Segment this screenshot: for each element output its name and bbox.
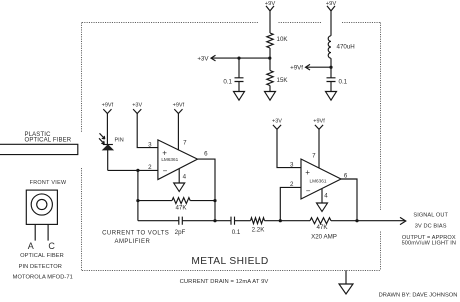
- svg-text:LM6361: LM6361: [310, 179, 327, 184]
- capacitor C 0.1 (supply filter): [327, 78, 348, 86]
- wire U1 output: [198, 159, 216, 221]
- svg-text:470uH: 470uH: [337, 44, 355, 51]
- svg-text:METAL SHIELD: METAL SHIELD: [191, 256, 268, 267]
- svg-text:2: 2: [290, 181, 294, 188]
- node U2 inverting input: [279, 219, 282, 222]
- svg-text:PIN DETECTOR: PIN DETECTOR: [19, 264, 62, 270]
- svg-text:PIN: PIN: [115, 137, 124, 143]
- node bypass cap junction: [237, 57, 240, 60]
- svg-text:+9Vf: +9Vf: [102, 103, 114, 109]
- resistor R 47K (U1 feedback): [172, 198, 190, 212]
- node U1 output / rail: [213, 219, 216, 222]
- svg-text:2pF: 2pF: [175, 229, 186, 236]
- wire 47K feedback row right: [190, 200, 215, 202]
- resistor R 10K: [267, 33, 289, 48]
- wire R 10K to divider node: [269, 48, 271, 71]
- svg-text:0.1: 0.1: [339, 79, 348, 86]
- wire shield to ground: [345, 271, 347, 285]
- node feedback 47K tap: [136, 199, 139, 202]
- svg-text:OPTICAL FIBER: OPTICAL FIBER: [25, 138, 72, 144]
- detector lead A: [34, 224, 36, 240]
- metal shield enclosure left edge (dashed): [81, 23, 83, 271]
- wire +9Vf down to U2 pin 7: [318, 129, 320, 168]
- svg-text:3V DC BIAS: 3V DC BIAS: [415, 223, 447, 229]
- node U1 output / feedback: [213, 199, 216, 202]
- net label +3V (arrow): [197, 55, 215, 62]
- svg-text:OPTICAL FIBER: OPTICAL FIBER: [20, 253, 64, 259]
- capacitor C 0.1 (divider bypass): [223, 78, 243, 86]
- svg-text:+3V: +3V: [132, 103, 142, 109]
- wire +3V down to U2 pin 3: [277, 129, 301, 167]
- svg-text:+9Vf: +9Vf: [313, 119, 325, 125]
- power symbol +3V (U1 pin3): [132, 103, 142, 114]
- svg-text:MOTOROLA MFOD-71: MOTOROLA MFOD-71: [13, 275, 73, 281]
- svg-text:LM6361: LM6361: [161, 157, 178, 162]
- net label +9Vf (arrow): [290, 64, 331, 71]
- power symbol +3V (U2 pin3): [272, 119, 282, 130]
- svg-text:+3V: +3V: [272, 119, 282, 125]
- photodiode D1 PIN (triangle): [103, 145, 113, 150]
- ground (divider bottom): [265, 92, 276, 101]
- node divider junction: [268, 57, 271, 60]
- detector inner circle: [37, 199, 47, 209]
- wire 47K feedback row left: [138, 200, 172, 202]
- detector outer circle: [31, 194, 52, 215]
- wire capacitor to ground: [330, 82, 332, 92]
- wire 2.2K to U2 input node: [265, 220, 311, 222]
- wire U2 pin2 vertical: [280, 187, 301, 220]
- wire U1 pin4 to ground: [178, 169, 180, 183]
- inductor L 470uH: [328, 36, 355, 58]
- svg-text:47K: 47K: [175, 204, 187, 211]
- wire rail to 2pF: [138, 220, 179, 222]
- plastic optical fiber (rectangle): [0, 144, 78, 154]
- wire U2 pin4 to ground: [321, 189, 323, 204]
- capacitor C 0.1 (coupling): [231, 217, 241, 236]
- detector package outline (front view): [26, 190, 57, 224]
- svg-text:2.2K: 2.2K: [252, 226, 266, 233]
- svg-text:0.1: 0.1: [223, 79, 232, 86]
- svg-text:−: −: [163, 167, 168, 176]
- wire +9Vf to photodiode cathode: [106, 114, 108, 145]
- svg-text:500mV/uW LIGHT IN: 500mV/uW LIGHT IN: [402, 241, 456, 247]
- svg-text:7: 7: [183, 139, 187, 146]
- resistor R 47K (U2 feedback X20): [310, 218, 337, 241]
- svg-text:FRONT VIEW: FRONT VIEW: [30, 180, 67, 186]
- ground (U1 pin 4): [174, 183, 185, 192]
- svg-text:2: 2: [148, 164, 152, 171]
- node +9Vf junction: [329, 66, 332, 69]
- svg-text:+9Vf: +9Vf: [173, 103, 185, 109]
- svg-text:47K: 47K: [316, 224, 328, 231]
- power symbol +9V (right supply): [326, 1, 337, 11]
- svg-text:10K: 10K: [277, 36, 289, 43]
- detector lead C: [47, 224, 49, 240]
- ground (supply filter cap): [326, 92, 337, 101]
- ground (shield): [339, 284, 353, 294]
- metal shield enclosure bottom edge (dashed): [82, 270, 381, 272]
- wire L1 to +9Vf node: [330, 58, 332, 78]
- svg-text:C: C: [48, 241, 55, 251]
- metal shield enclosure top edge (dashed): [82, 22, 381, 24]
- power symbol +9Vf (photodiode): [102, 103, 114, 114]
- wire photodiode anode down: [107, 150, 109, 171]
- wire signal out: [357, 220, 405, 222]
- signal out arrowhead: [400, 217, 406, 224]
- light arrow 1 into diode: [100, 133, 105, 139]
- svg-text:DRAWN BY: DAVE JOHNSON: DRAWN BY: DAVE JOHNSON: [379, 292, 458, 298]
- wire +9V to R1: [269, 11, 271, 33]
- wire +3V down to pin 3: [137, 114, 158, 148]
- svg-text:+9V: +9V: [326, 1, 337, 7]
- op-amp U2 LM6361 (triangle): [301, 159, 341, 199]
- svg-text:4: 4: [324, 193, 328, 200]
- wire capacitor to ground: [238, 82, 240, 92]
- op-amp U1 LM6361 (triangle): [158, 140, 198, 180]
- light arrow 2 into diode: [99, 138, 104, 144]
- metal shield enclosure right edge (dashed): [380, 23, 382, 271]
- svg-text:A: A: [28, 241, 34, 251]
- power symbol +9Vf (U2 pin7): [313, 119, 325, 130]
- svg-text:0.1: 0.1: [232, 229, 241, 236]
- svg-text:+9Vf: +9Vf: [290, 65, 303, 72]
- resistor R 2.2K: [251, 218, 266, 234]
- svg-text:4: 4: [183, 174, 187, 181]
- wire anode to inverting input (pin 2 row): [108, 169, 158, 171]
- power symbol +9Vf (U1 pin7): [173, 103, 185, 114]
- power symbol +9V (left supply): [265, 1, 276, 11]
- svg-text:+3V: +3V: [197, 56, 209, 63]
- svg-text:−: −: [306, 187, 311, 196]
- svg-text:CURRENT DRAIN = 12mA AT 9V: CURRENT DRAIN = 12mA AT 9V: [180, 279, 269, 285]
- svg-text:6: 6: [204, 150, 208, 157]
- svg-text:3: 3: [148, 141, 152, 148]
- wire +9V to L1: [330, 11, 332, 36]
- capacitor C 2pF (U1 feedback): [175, 217, 186, 236]
- wire 47K to output node: [331, 220, 357, 222]
- wire R 15K to ground: [269, 86, 271, 92]
- svg-text:AMPLIFIER: AMPLIFIER: [115, 239, 151, 245]
- svg-text:+9V: +9V: [265, 1, 276, 7]
- svg-text:SIGNAL OUT: SIGNAL OUT: [413, 212, 448, 218]
- svg-text:X20 AMP: X20 AMP: [311, 234, 337, 241]
- resistor R 15K: [267, 71, 289, 86]
- photodiode D1 PIN (cathode bar): [103, 144, 113, 146]
- node U2 output junction: [355, 219, 358, 222]
- wire node to capacitor C 0.1: [238, 58, 240, 78]
- wire coupling cap to 2.2K: [235, 220, 251, 222]
- ground (U2 pin 4): [317, 203, 328, 212]
- svg-text:3: 3: [290, 161, 294, 168]
- svg-text:CURRENT TO VOLTS: CURRENT TO VOLTS: [102, 230, 169, 236]
- svg-text:15K: 15K: [277, 77, 289, 84]
- wire 2pF to output node: [182, 220, 231, 222]
- ground (divider cap): [234, 92, 245, 101]
- wire feedback left vertical: [137, 170, 139, 220]
- wire divider node to +3V arrow: [212, 57, 270, 59]
- wire U2 output: [341, 179, 357, 221]
- svg-text:+: +: [305, 168, 310, 177]
- node feedback tap on pin2 row: [136, 169, 139, 172]
- svg-text:7: 7: [312, 153, 316, 160]
- wire +9Vf down to pin 7: [177, 114, 179, 151]
